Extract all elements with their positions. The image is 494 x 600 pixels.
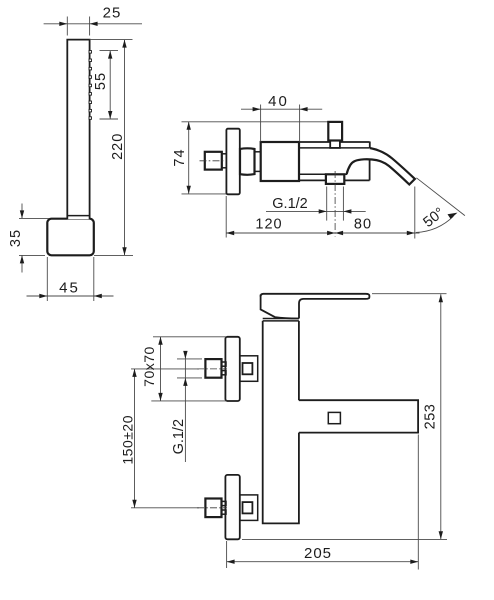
50 degree arc [416,216,454,232]
spray nozzle dots [89,51,92,120]
svg-text:55: 55 [93,72,109,90]
cartridge collar [263,318,299,320]
top union connector [240,356,258,382]
50 degree diagonal line [416,178,465,216]
svg-text:220: 220 [110,133,126,160]
top fitting tabs [222,362,227,366]
spout bar (front view) [299,400,418,432]
bottom eccentric fitting [205,499,221,518]
dimension 25 line [44,23,142,25]
body top line [299,141,370,143]
top wall plate (front view) [225,337,239,401]
dimension 55 line [109,51,111,119]
handle joint line [67,215,89,217]
shower outlet block [326,174,344,184]
dimension 120/80 line [225,196,227,238]
body inner bottom line [299,173,326,175]
dimension 70x70 [153,336,227,338]
HANDSHOWER VIEW [8,5,142,302]
svg-text:80: 80 [354,217,372,233]
dimension 253 [372,293,447,295]
handshower base block [47,219,94,256]
handle knob (side view) [328,122,342,141]
wall union square (side view) [205,152,222,170]
dimension 35 line [21,204,23,219]
svg-text:25: 25 [103,5,122,22]
bottom union inner square [243,502,253,513]
main cartridge block [261,142,299,181]
74 bottom extension line [182,193,227,195]
bottom union connector [240,495,258,521]
neck step cylinder [255,151,262,153]
spout outline [347,148,415,185]
handshower handle [67,40,89,220]
svg-text:G.1/2: G.1/2 [171,419,187,454]
svg-text:120: 120 [255,217,282,233]
column body [263,321,299,524]
dimension 45 line [27,295,114,297]
svg-text:150±20: 150±20 [120,415,136,465]
G.1/2 dimension (side view) [326,187,328,221]
spout bar square detail [328,412,340,423]
dimension 205 [226,541,228,568]
top eccentric fitting [205,359,221,378]
dimension 40 line [241,108,322,110]
SIDE VIEW [172,93,465,239]
svg-text:70x70: 70x70 [141,346,157,387]
wall union centerline [200,160,229,162]
dimension 220 line [124,40,126,256]
bottom fitting tabs [222,501,227,505]
spout fill [347,148,415,185]
lever blade (front view) [261,294,370,319]
body bottom line [299,179,326,181]
svg-text:40: 40 [268,93,289,110]
top union inner square [243,363,253,374]
lever knob left side [261,295,299,319]
dimension 150±20 [134,369,136,508]
bottom wall plate (front view) [225,475,239,539]
body inner top line [299,147,370,149]
G.1/2 dimension (front view) [184,351,186,462]
dimension 74 line [188,122,190,194]
FRONT VIEW [120,294,448,570]
body right edge [369,160,371,181]
svg-text:G.1/2: G.1/2 [272,196,307,212]
bottom union centerline [131,507,199,509]
handle stem (side view) [330,141,340,148]
outlet centerline [334,171,336,237]
svg-text:205: 205 [304,545,332,562]
neck barrel between plate and body [240,148,255,174]
svg-text:45: 45 [59,280,80,297]
svg-text:35: 35 [8,229,24,247]
wall union neck [222,154,227,168]
svg-text:74: 74 [172,148,188,166]
top union centerline [131,368,199,370]
wall plate (side view) [226,129,239,195]
svg-text:253: 253 [422,404,438,430]
74 top extension line [182,121,329,123]
